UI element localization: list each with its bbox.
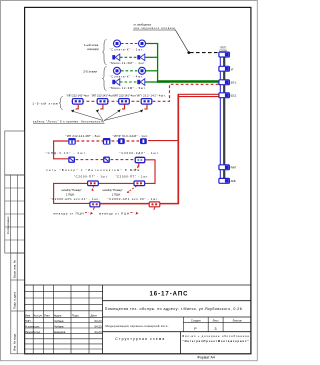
row4 stub1 [92,186,95,191]
svg-text:"ИП 212-141"-4шт: "ИП 212-141"-4шт [91,94,114,98]
signature table grid [25,285,103,354]
row6 dev1 [90,202,100,207]
svg-text:Структурная схема: Структурная схема [115,337,164,341]
siren C2 [139,67,146,74]
detector D2 [97,99,108,105]
row4 stub2 [127,186,137,193]
svg-text:ГИП: ГИП [25,319,31,323]
detector row dashed wire [72,100,142,102]
left sidebar upper block [5,131,25,175]
wire U-bend row4 to row6 [54,183,90,203]
svg-text:"ИП 212-141"-4шт.: "ИП 212-141"-4шт. [136,94,166,98]
svg-text:зон звукового оповещ.: зон звукового оповещ. [134,26,177,30]
terminal 5 [219,165,230,170]
siren A2 [139,40,146,47]
detector D3 [119,99,130,105]
svg-text:1 ПЦН: 1 ПЦН [112,192,120,196]
svg-text:коридор: коридор [87,47,99,51]
wire loop- from terminal 4 [179,96,219,98]
svg-text:3: 3 [215,327,217,331]
svg-text:Изм.: Изм. [25,313,31,317]
svg-text:"ИнтегралПроектМонтажсервис": "ИнтегралПроектМонтажсервис" [183,339,250,343]
svg-text:"С2000-ПТ" - 1шт.: "С2000-ПТ" - 1шт. [74,175,108,179]
row6 dev2 [149,202,160,207]
left sidebar approvals ladder [5,175,25,253]
svg-text:"С2000-КДЛ" - 1шт.: "С2000-КДЛ" - 1шт. [119,151,159,155]
siren C1 [114,67,121,74]
svg-text:2-5 этажи: 2-5 этажи [83,70,97,74]
svg-text:сеть "Визор" с "Интеллектом" 8: сеть "Визор" с "Интеллектом" 8 МОм [46,168,139,172]
svg-text:Н.контроль: Н.контроль [25,324,40,328]
speaker row D: wires [120,81,137,83]
terminal 4 [219,93,230,98]
wire U-bend row3 to row4 [145,160,156,184]
svg-text:Модернизация охранно-пожарной: Модернизация охранно-пожарной сигн. [106,324,169,328]
svg-text:Лист: Лист [44,313,51,317]
detector D1 [72,99,83,105]
speaker B1 [112,54,120,61]
row3 KDL [135,157,145,162]
svg-text:04.23: 04.23 [95,330,102,334]
row2 s2 [103,138,111,145]
speaker B2 [137,54,145,61]
svg-text:Цинарёв: Цинарёв [54,330,66,334]
stage cells [183,317,251,332]
row4 dev2 [134,181,145,186]
red dashed from terminal3 [153,84,219,101]
svg-text:"Маяк-12-3М" - 1шт.: "Маяк-12-3М" - 1шт. [110,61,146,65]
svg-text:АКБ: АКБ [231,179,236,183]
svg-text:меандр от ПЦН: меандр от ПЦН [99,212,129,216]
rotated sidebar labels [6,216,17,351]
svg-text:№док.: №док. [54,313,62,317]
wire row6 left [99,203,150,205]
svg-text:Чубаев: Чубаев [54,324,64,328]
terminal 6 [219,178,230,183]
det stub 4 [140,104,147,112]
svg-text:"ИП 212-141"-4шт: "ИП 212-141"-4шт [67,94,90,98]
det stub 2 [96,104,103,112]
svg-text:Чубаев: Чубаев [54,319,64,323]
det stub 3 [117,104,124,112]
svg-text:"Маяк-12-3М" - 5шт.: "Маяк-12-3М" - 5шт. [110,86,147,90]
row2 s3 [118,138,125,144]
row6 stub1 [93,207,94,210]
wire row4 [98,182,135,184]
row4 dev1 [88,181,99,186]
node dot [187,51,190,54]
brace rows A-B [102,40,106,65]
wire loop+ from terminal 4 [178,93,219,95]
brace dets [59,97,63,110]
terminal 3 [219,80,230,85]
svg-text:"С2000-АР1 исп.36" - 1шт.: "С2000-АР1 исп.36" - 1шт. [108,197,159,201]
svg-text:Дата: Дата [91,313,98,317]
svg-text:Подп.: Подп. [72,313,80,317]
svg-text:04.23: 04.23 [95,319,102,323]
left sidebar inventory column [11,253,25,354]
wire row6 right [159,203,179,205]
svg-text:04.23: 04.23 [95,324,102,328]
terminal 1 [219,52,230,57]
wire row2 dashed [77,140,140,142]
green collector vertical [157,43,159,82]
speaker row B: wires [120,56,137,58]
drawing frame [25,7,251,353]
svg-text:Лист: Лист [213,318,220,322]
svg-text:"Соната-К" - 1шт.: "Соната-К" - 1шт. [110,47,144,51]
svg-text:Кол.уч: Кол.уч [34,313,43,317]
svg-text:Согласовано: Согласовано [6,216,10,234]
brace rows C-D [102,67,106,91]
svg-text:"ИПР 513-3АМ" - 1шт.: "ИПР 513-3АМ" - 1шт. [113,134,149,138]
row2 s4 [140,138,147,144]
black dashed line to terminal [190,52,219,54]
wire U-bend row2 to row3 [54,141,68,159]
svg-text:"СПД-3.10" - 2шт.: "СПД-3.10" - 2шт. [46,151,87,155]
svg-text:Стадия: Стадия [191,318,201,322]
svg-text:ШС1: ШС1 [231,94,237,98]
detector D4 [141,99,152,105]
sounder row A: wires [121,43,138,45]
svg-text:ЗО-1: ЗО-1 [231,81,237,85]
row6 stub2 [154,207,155,210]
bus cable blue [219,56,221,180]
svg-text:"С2000-ПТ" - 1шт.: "С2000-ПТ" - 1шт. [115,175,148,179]
row3 s1 [68,157,75,163]
callout leaders [73,111,142,120]
svg-text:Помещения тех. обслуж. по адре: Помещения тех. обслуж. по адресу: г.Минс… [105,307,242,311]
red arrow annotation [135,167,139,171]
wire row3 dashed [76,159,136,161]
svg-text:"С2000-АР1 исп.01" - 1шт.: "С2000-АР1 исп.01" - 1шт. [51,197,100,201]
KDL red stub [138,163,140,166]
svg-text:16-17-АПС: 16-17-АПС [150,291,189,297]
siren A1 [114,40,121,47]
det stub 1 [71,104,78,112]
svg-text:"ИП 212-141"-4шт: "ИП 212-141"-4шт [113,94,136,98]
signature table text [25,313,102,333]
svg-text:Разработал: Разработал [25,330,41,334]
leader to node [176,30,189,52]
svg-text:1-5-ый этаж: 1-5-ый этаж [32,102,58,106]
wire row2 to vertical [148,140,178,142]
svg-text:Взам. инв. №: Взам. инв. № [13,260,17,278]
svg-text:Формат А4: Формат А4 [197,356,215,360]
svg-text:"ИП 212-141-МР" - 5шт.: "ИП 212-141-МР" - 5шт. [66,134,102,138]
green bus to terminal [157,80,219,82]
svg-text:Подп. и дата: Подп. и дата [13,292,17,309]
speaker D2 [137,79,145,86]
wire loop main vertical [177,94,179,203]
row2 s1 [68,138,76,145]
row3 s2 [103,157,110,163]
svg-text:кабель "Лотос" 5 к приемн. без: кабель "Лотос" 5 к приемн. безопасности [33,120,104,124]
svg-text:Фил-ал + дочернее обособленное: Фил-ал + дочернее обособленное [182,334,249,338]
svg-text:РИП: РИП [231,166,237,170]
terminal 2 [219,66,230,71]
svg-text:Инв. № подл.: Инв. № подл. [13,333,17,351]
bus cable gray [223,56,225,180]
svg-text:"Соната-К" - 4шт.: "Соната-К" - 4шт. [110,75,144,79]
svg-text:Листов: Листов [232,318,242,322]
speaker D1 [112,79,120,86]
svg-text:меандр от ПЦН: меандр от ПЦН [54,212,84,216]
sheet edge [1,1,258,361]
wire loop bottom return [95,202,179,204]
siren row C: wires [121,70,138,72]
svg-text:1 ПЦН: 1 ПЦН [66,192,74,196]
